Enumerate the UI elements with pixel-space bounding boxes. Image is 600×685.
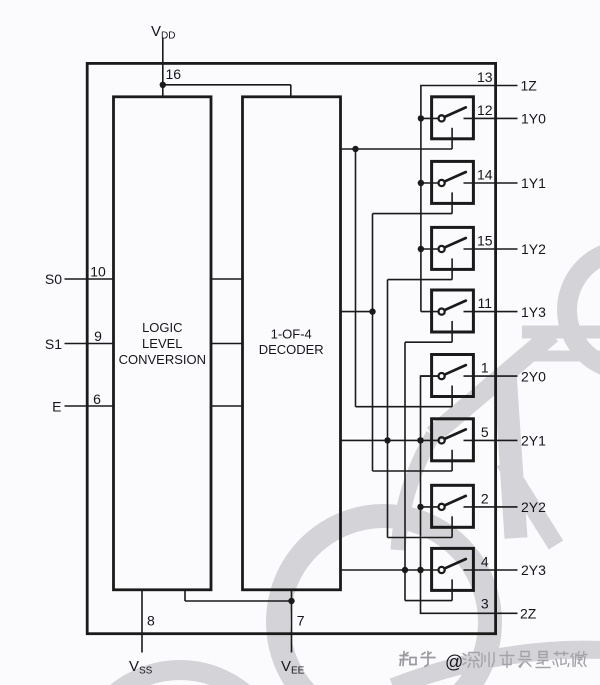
wire conversion-to-decoder S1: [211, 343, 243, 345]
svg-text:11: 11: [478, 295, 493, 311]
analog switch 2Y2: [421, 485, 518, 537]
junction 2Y3 input: [417, 567, 423, 573]
svg-text:3: 3: [481, 596, 489, 612]
svg-text:LEVEL: LEVEL: [142, 336, 182, 351]
svg-text:1Z: 1Z: [521, 78, 538, 94]
svg-text:E: E: [52, 399, 61, 415]
junction Y3 bus: [402, 567, 408, 573]
net 1Z, pin 13: [421, 86, 518, 312]
analog switch 1Y1: [421, 161, 518, 213]
wire decoder output Y0: [341, 148, 453, 150]
wire VDD branch to decoder: [163, 84, 291, 86]
net VSS, pin 8: [141, 590, 143, 653]
svg-text:LOGIC: LOGIC: [142, 320, 182, 335]
junction 1Y0 input: [418, 115, 424, 121]
svg-text:5: 5: [481, 424, 489, 440]
wire decoder output Y1: [341, 311, 373, 313]
wire conversion-to-decoder E: [211, 405, 243, 407]
net 2Z, pin 3: [421, 376, 518, 613]
junction Y1 bus: [369, 308, 375, 314]
junction Y2 bus: [384, 437, 390, 443]
svg-text:12: 12: [477, 102, 493, 118]
svg-text:4: 4: [481, 554, 489, 570]
analog switch 1Y2: [421, 227, 518, 279]
svg-text:9: 9: [94, 328, 102, 344]
analog switch 1Y3: [421, 290, 518, 342]
analog switch 2Y3: [421, 548, 518, 600]
svg-text:2Y1: 2Y1: [521, 433, 546, 449]
control bus Y2: [387, 280, 389, 538]
junction VEE: [288, 598, 294, 604]
svg-text:S1: S1: [45, 336, 62, 352]
svg-text:1-OF-4: 1-OF-4: [271, 326, 312, 341]
svg-text:1Y3: 1Y3: [521, 304, 546, 320]
svg-text:1: 1: [481, 360, 489, 376]
svg-text:2: 2: [481, 490, 489, 506]
junction 2Y1 input: [417, 437, 423, 443]
wire decoder output Y2: [341, 439, 421, 441]
control bus Y3: [404, 342, 406, 600]
analog switch 2Y1: [421, 419, 518, 471]
junction 1Y1 input: [418, 180, 424, 186]
svg-text:2Z: 2Z: [520, 606, 537, 622]
svg-text:10: 10: [90, 264, 106, 280]
block: LOGIC LEVEL CONVERSION: [114, 97, 212, 590]
svg-text:2Y3: 2Y3: [521, 562, 546, 578]
svg-text:15: 15: [477, 233, 493, 249]
svg-text:1Y2: 1Y2: [521, 241, 546, 257]
svg-text:2Y2: 2Y2: [521, 499, 546, 515]
svg-text:DECODER: DECODER: [259, 342, 324, 357]
junction Y0 bus: [352, 146, 358, 152]
IC outer boundary box: [87, 63, 495, 633]
control bus Y0: [355, 149, 357, 407]
svg-text:13: 13: [477, 69, 493, 85]
svg-text:S0: S0: [45, 271, 62, 287]
junction Y2-2Z crossing: [417, 437, 423, 443]
svg-text:6: 6: [93, 391, 101, 407]
junction 2Y2 input: [417, 504, 423, 510]
watermark: [80, 250, 600, 685]
attribution: 知乎 @深圳市灵星芯微: [400, 652, 416, 666]
svg-text:16: 16: [166, 66, 182, 82]
junction VDD: [160, 82, 166, 88]
net VEE, pin 7: [184, 590, 186, 601]
junction 1Y2 input: [418, 246, 424, 252]
block: 1-OF-4 DECODER: [243, 97, 341, 590]
svg-text:8: 8: [147, 613, 155, 629]
wire conversion-to-decoder S0: [211, 278, 243, 280]
analog switch 1Y0: [421, 97, 518, 149]
svg-text:1Y1: 1Y1: [521, 175, 546, 191]
svg-text:2Y0: 2Y0: [521, 368, 546, 384]
control bus Y1: [372, 214, 374, 471]
junction Y3-2Z crossing: [417, 567, 423, 573]
svg-text:@: @: [445, 652, 463, 672]
svg-text:1Y0: 1Y0: [521, 111, 546, 127]
svg-text:14: 14: [477, 167, 493, 183]
wire decoder output Y3: [341, 569, 421, 571]
analog switch 2Y0: [421, 355, 518, 407]
svg-text:7: 7: [297, 613, 305, 629]
svg-text:CONVERSION: CONVERSION: [119, 352, 206, 367]
